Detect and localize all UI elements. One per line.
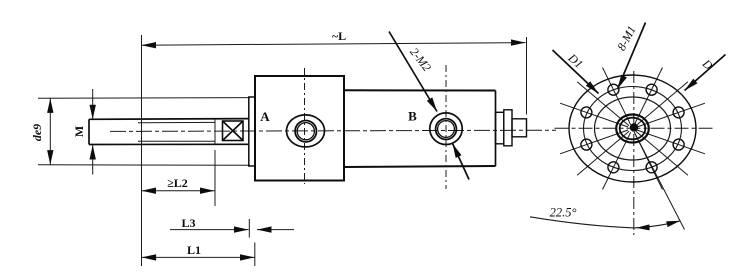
dimension line ~L [142,43,526,46]
wrench flats square [223,121,244,141]
rear stem [512,119,527,137]
svg-text:B: B [408,109,417,124]
extended spoke 22.5deg [634,132,684,229]
extension line de9 bottom [38,164,250,166]
svg-text:L1: L1 [187,243,201,257]
svg-text:22.5°: 22.5° [550,206,577,220]
rear stub step 2 [504,110,512,146]
dimension M lower segment [92,145,94,175]
dimension M upper segment [92,89,94,119]
extension tick L3 [248,219,250,238]
dimension line L1 [142,256,255,258]
extension line de9 top [38,97,250,100]
center boss double circle [616,115,649,143]
dimension line L3 left part [170,229,249,231]
bolt circle [584,87,682,171]
head block [255,76,344,181]
leader D [685,55,726,91]
svg-text:M: M [72,126,86,137]
extension line L right [526,37,528,115]
svg-text:de9: de9 [30,124,44,141]
port B inner circles [436,119,457,140]
flange vertical centerline [633,71,635,235]
cylinder barrel [344,89,496,91]
leader 2-M2 lower [453,144,470,180]
port A boss ellipse [287,115,325,147]
thread end line [214,119,216,145]
spigot circle [595,97,671,160]
svg-text:D1: D1 [565,50,586,71]
port B centerline vertical [445,65,447,189]
rear stub step 1 [496,112,504,144]
dimension line L2 [142,190,216,192]
port B boss ellipse [430,113,462,145]
dimension de9 vertical line [49,98,51,165]
bolt holes 8-M1 [673,107,684,118]
flange horizontal centerline [555,127,716,129]
thread inner lines [138,121,215,123]
leader D1 [553,50,599,94]
dimension line L3 right part [257,229,294,231]
extension line L1 right [254,243,256,267]
piston rod outline [88,119,90,144]
extension line L2 right [214,150,216,206]
port A centerline vertical [304,68,306,184]
extension line L left [141,35,143,266]
svg-text:D: D [699,56,716,73]
flange radial spokes [637,103,705,127]
angle dimension arc 22.5 [530,217,635,228]
front flange plate [249,97,255,166]
svg-text:L3: L3 [181,216,195,230]
leader 2-M2 upper [389,32,437,112]
center hole [630,123,638,131]
svg-text:≥L2: ≥L2 [167,176,188,190]
centerline of cylinder axis [110,130,556,131]
svg-text:~L: ~L [332,29,346,43]
port A inner circles [295,121,316,142]
flange outer ellipse [569,75,696,182]
svg-text:A: A [260,109,270,124]
leader 8-M1 [618,23,646,90]
